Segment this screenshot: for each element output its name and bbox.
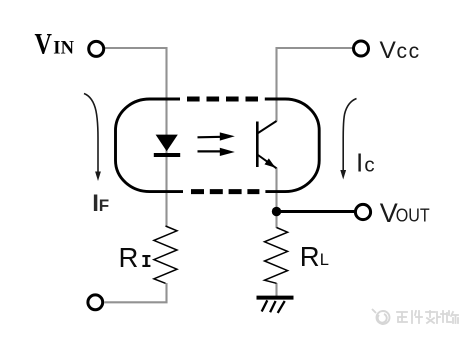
current arrow IF xyxy=(84,94,101,182)
terminal VCC xyxy=(354,41,369,56)
phototransistor Q1 collector lead xyxy=(257,121,276,134)
svg-text:OUT: OUT xyxy=(396,205,430,226)
phototransistor Q1 base bar xyxy=(256,122,259,168)
svg-text:c: c xyxy=(364,154,374,177)
ground hatch 1 xyxy=(262,300,268,311)
svg-text:R: R xyxy=(119,242,139,273)
terminal lower-left xyxy=(88,295,103,310)
svg-text:R: R xyxy=(300,241,320,272)
terminal VOUT xyxy=(355,204,370,219)
svg-text:I: I xyxy=(141,253,152,273)
ground hatch 2 xyxy=(270,301,276,312)
LED D1 triangle xyxy=(156,135,178,152)
watermark text 硬件攻城狮 (approximated strokes) xyxy=(397,311,458,323)
optocoupler U1 package left cap xyxy=(116,99,184,192)
ground hatch 3 xyxy=(278,301,285,313)
svg-text:F: F xyxy=(99,196,109,215)
svg-text:IN: IN xyxy=(53,39,74,59)
phototransistor Q1 emitter lead with arrow xyxy=(257,155,276,169)
wire VCC to collector xyxy=(277,48,354,122)
light emission arrow upper xyxy=(198,132,235,140)
resistor RL zigzag xyxy=(265,228,288,284)
svg-text:V: V xyxy=(380,37,397,64)
optocoupler U1 package right cap xyxy=(265,99,319,192)
current arrow IC xyxy=(340,99,356,180)
wire RL bottom to ground xyxy=(275,283,277,297)
wire RI bottom to lower-left terminal xyxy=(104,283,166,302)
optocoupler U1 package top dashed edge xyxy=(187,97,258,102)
ground bar xyxy=(257,296,294,300)
LED D1 cathode bar xyxy=(154,153,180,157)
wire VIN to LED anode xyxy=(105,48,167,226)
svg-text:V: V xyxy=(35,28,52,60)
svg-text:cc: cc xyxy=(397,40,422,63)
svg-text:L: L xyxy=(320,251,329,269)
light emission arrow lower xyxy=(198,148,235,156)
terminal VIN xyxy=(89,41,104,56)
wire emitter to node VOUT xyxy=(275,168,277,229)
svg-text:I: I xyxy=(356,148,363,178)
optocoupler U1 package bottom dashed edge xyxy=(191,189,259,194)
wire node to VOUT terminal xyxy=(277,210,356,213)
resistor RI zigzag xyxy=(154,226,177,283)
node VOUT junction dot xyxy=(272,207,281,216)
watermark logo icon xyxy=(372,309,390,324)
